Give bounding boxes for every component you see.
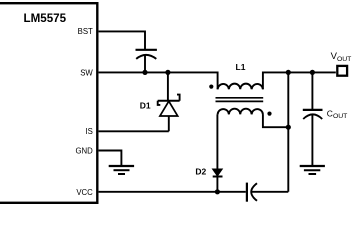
svg-text:L1: L1	[236, 62, 246, 72]
svg-text:D1: D1	[140, 101, 151, 111]
svg-text:D2: D2	[195, 166, 206, 176]
svg-text:VCC: VCC	[76, 188, 93, 197]
svg-text:GND: GND	[75, 146, 93, 155]
svg-text:SW: SW	[80, 68, 93, 77]
svg-text:LM5575: LM5575	[24, 12, 67, 25]
svg-text:BST: BST	[78, 27, 93, 36]
svg-text:IS: IS	[85, 127, 92, 136]
